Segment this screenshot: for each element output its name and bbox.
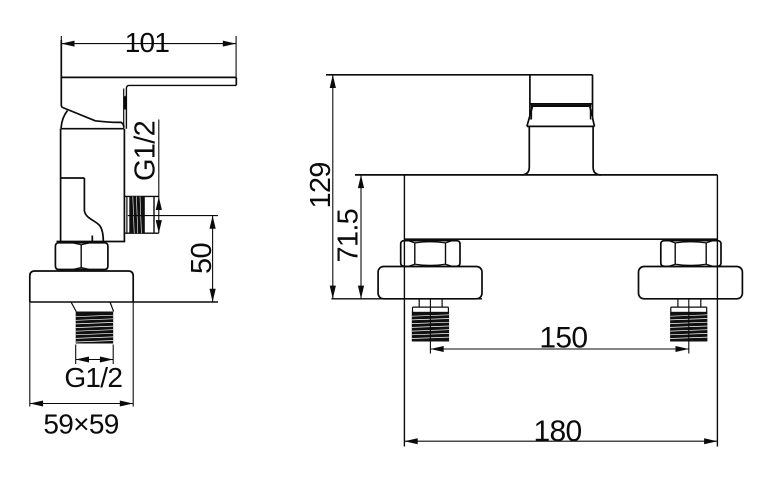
front view: left nut bottom chamfer notches xyxy=(409,264,452,266)
side view: mounting nut top chamfer notch xyxy=(74,243,89,245)
side view: body base ledge xyxy=(57,241,126,243)
side view: lever handle top edge xyxy=(61,76,236,78)
side view: outlet end face xyxy=(153,196,155,233)
svg-text:50: 50 xyxy=(186,243,218,274)
side view: mounting nut facet divider xyxy=(80,245,82,269)
arrowhead 59x59 left xyxy=(30,401,43,407)
front view: handle top edge with 129 extension line xyxy=(326,74,593,76)
dim G1/2 inlet: left extension line xyxy=(75,345,77,365)
side view: wall plate 59x59 xyxy=(30,271,133,302)
front view: left pipe thread top ring xyxy=(413,307,449,312)
dim 59x59: right extension line xyxy=(132,302,134,407)
front view: left neck right edge xyxy=(441,299,443,307)
side view: body right edge xyxy=(123,129,125,242)
side view: outlet stub bottom xyxy=(124,232,159,234)
front view: right nut facet divider right xyxy=(705,243,707,264)
svg-text:129: 129 xyxy=(305,162,337,208)
side view: body inner vertical short xyxy=(91,236,93,242)
dim 71.5: dimension line xyxy=(360,175,362,299)
side view: body top edge xyxy=(61,128,124,130)
side view: inlet pipe thread G1/2 xyxy=(76,312,114,344)
dim G1/2 outlet: dimension line xyxy=(158,120,160,234)
arrowhead 59x59 right xyxy=(120,401,133,407)
front view: right pipe thread crest lines xyxy=(670,315,707,339)
front view: handle bottom edge xyxy=(530,103,593,105)
side view: inlet thread crest lines xyxy=(76,315,114,342)
arrowhead 50 down xyxy=(210,289,216,302)
side view: body inner step horizontal xyxy=(61,177,85,179)
side view: outlet stub collar xyxy=(126,196,128,233)
dim 50: outlet centerline extension xyxy=(128,215,218,217)
side view: lever handle right end xyxy=(235,77,237,85)
svg-text:180: 180 xyxy=(534,415,582,448)
side view: body left edge xyxy=(60,129,62,242)
front view: cone left slant xyxy=(527,107,533,127)
dim G1/2 inlet: dimension line xyxy=(76,359,114,361)
side view: outlet thread crest lines xyxy=(133,196,142,233)
front view: handle left edge xyxy=(529,75,531,120)
arrowhead 50 up xyxy=(210,216,216,229)
front view: right flange plate xyxy=(639,267,743,299)
side view: handle left edge xyxy=(61,40,62,108)
side view: inlet thread chamfer right xyxy=(110,302,114,312)
arrowhead G1/2 inlet left xyxy=(76,357,89,363)
arrowhead 101 right xyxy=(223,41,236,47)
dim 101: right extension line xyxy=(235,36,237,77)
arrowhead G1/2 outlet down xyxy=(156,220,162,233)
front view: bar bottom edge xyxy=(404,238,717,240)
arrowhead 150 right xyxy=(676,346,689,352)
front view: right nut facet divider left xyxy=(674,243,676,264)
svg-text:101: 101 xyxy=(125,27,170,58)
arrowhead 129 down xyxy=(330,286,336,299)
front view: right nut bottom chamfer notches xyxy=(669,264,712,266)
front view: bar left edge with 180 extension line xyxy=(403,175,405,447)
front view: bar right edge with 180 extension line xyxy=(716,175,718,447)
dim 101: dimension line xyxy=(61,43,236,45)
dim 129/71.5: bottom extension line xyxy=(331,298,482,300)
front view: left pipe thread G1/2 xyxy=(412,312,449,342)
dim 150: right extension centerline xyxy=(688,299,690,354)
front view: lever underside thick band xyxy=(531,105,591,107)
side view: handle underside slant xyxy=(63,108,124,128)
side view: wall plate bottom edge with 50 extension xyxy=(30,301,218,303)
arrowhead 180 right xyxy=(704,438,717,444)
dim 59x59: dimension line xyxy=(30,403,133,405)
arrowhead 101 left xyxy=(61,41,74,47)
side view: outlet stub top xyxy=(124,195,159,197)
arrowhead 71.5 up xyxy=(358,175,364,188)
side view: mounting nut outline xyxy=(55,243,108,270)
dim 101: left extension overshoot xyxy=(60,36,62,42)
dim 59x59: left extension line xyxy=(29,302,31,407)
front view: left nut outline xyxy=(401,241,460,267)
front view: right nut outline xyxy=(661,241,721,267)
side view: outlet tip boundary xyxy=(143,196,145,233)
side view: handle hinge pin xyxy=(123,96,126,110)
front view: left pipe thread crest lines xyxy=(412,315,449,339)
front view: right pipe thread top ring xyxy=(671,307,707,312)
side view: outlet thread G1/2 xyxy=(129,196,144,233)
front view: body right side with fillet xyxy=(593,126,601,174)
svg-text:71.5: 71.5 xyxy=(333,209,365,263)
dim 150: left extension centerline xyxy=(429,299,431,354)
front view: cone bottom edge xyxy=(527,125,595,127)
front view: handle ear left xyxy=(531,104,533,120)
front view: right neck right edge xyxy=(700,299,702,307)
dim 129: dimension line xyxy=(332,75,334,299)
front view: bar top edge with 71.5 extension line xyxy=(355,174,717,176)
side view: body inner step vertical xyxy=(83,178,85,211)
front view: left flange plate xyxy=(378,267,482,299)
side view: mounting nut bottom chamfer notch xyxy=(74,268,89,270)
svg-text:59×59: 59×59 xyxy=(43,408,118,439)
side view: body inner S-curve xyxy=(84,211,103,242)
front view: handle right edge xyxy=(592,75,594,120)
side view: lever underside xyxy=(126,85,236,128)
front view: cone right slant xyxy=(590,107,595,127)
arrowhead G1/2 outlet up xyxy=(156,197,162,210)
front view: body left side with fillet xyxy=(521,126,529,174)
svg-text:150: 150 xyxy=(539,321,587,354)
side view: inlet thread chamfer left xyxy=(71,302,76,312)
front view: right nut top chamfer notches xyxy=(669,241,712,243)
front view: left nut facet divider left xyxy=(414,243,416,264)
side view: lever neck inner edge xyxy=(123,89,125,129)
dim 150: dimension line xyxy=(430,348,688,350)
front view: left neck left edge xyxy=(418,299,420,307)
svg-text:G1/2: G1/2 xyxy=(64,362,122,393)
arrowhead 150 left xyxy=(430,346,443,352)
arrowhead G1/2 inlet right xyxy=(100,357,113,363)
arrowhead 129 up xyxy=(330,75,336,88)
front view: right pipe thread G1/2 xyxy=(670,312,707,342)
dim 50: dimension line xyxy=(212,216,214,302)
svg-text:G1/2: G1/2 xyxy=(130,121,162,181)
dim G1/2 inlet: right extension line xyxy=(112,345,114,365)
arrowhead 71.5 down xyxy=(358,286,364,299)
arrowhead 180 left xyxy=(404,438,417,444)
dim 180: dimension line xyxy=(404,440,717,442)
front view: left nut top chamfer notches xyxy=(409,241,452,243)
front view: left nut facet divider right xyxy=(445,243,447,264)
front view: handle ear right xyxy=(589,104,591,120)
front view: right neck left edge xyxy=(677,299,679,307)
side view: handle dome arc xyxy=(61,111,68,129)
